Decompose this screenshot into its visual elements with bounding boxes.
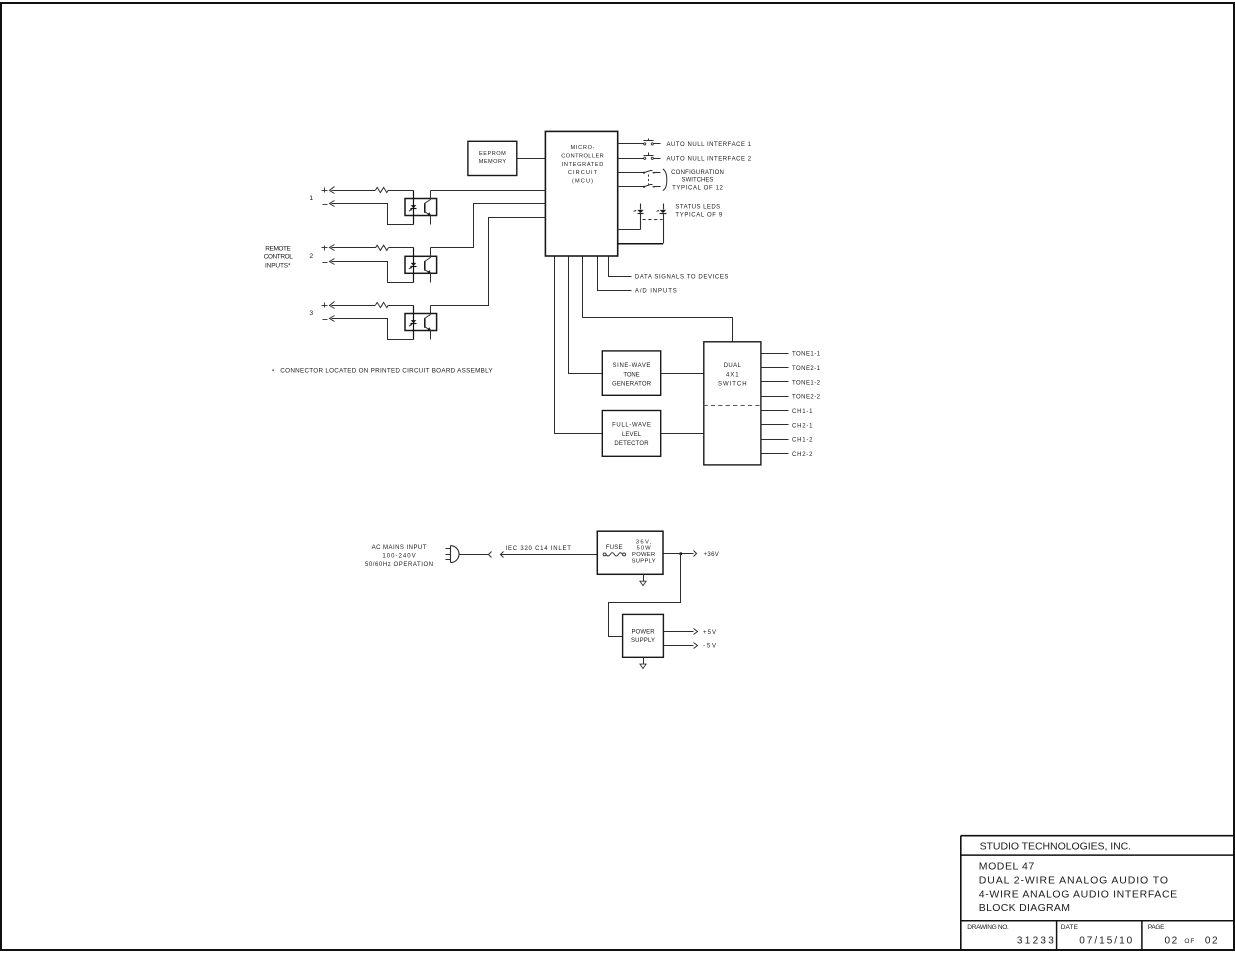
node - input channel 2 <box>323 262 328 264</box>
title model and description <box>979 861 1177 915</box>
svg-text:CH1-1: CH1-1 <box>792 409 813 415</box>
opto-isolator U3 <box>405 306 437 340</box>
svg-text:POWER: POWER <box>631 630 655 636</box>
svg-text:AC MAINS INPUT: AC MAINS INPUT <box>372 545 427 551</box>
fuse F1 symbol <box>603 553 626 556</box>
wire -5V output <box>664 645 694 647</box>
wire status LED D2 to MCU <box>618 243 663 245</box>
wire switch output TONE2-1 <box>761 367 789 369</box>
resistor R3 <box>376 302 389 307</box>
config switch SW1 <box>643 171 654 174</box>
svg-text:DRAWING NO.: DRAWING NO. <box>967 924 1009 931</box>
ground below low voltage power supply <box>640 658 646 669</box>
brace for config switches <box>663 169 667 191</box>
wire MCU to dual 4x1 switch <box>583 257 733 342</box>
wire - input channel 3 <box>332 319 414 340</box>
status LED D2 <box>657 204 667 244</box>
wire + input to resistor channel 1 <box>332 190 376 192</box>
node - input channel 3 <box>323 319 328 321</box>
wire level detector to switch <box>661 433 704 435</box>
wire MCU to config switch 1 <box>618 172 644 174</box>
footnote: connector located on printed circuit board assembly <box>272 368 494 376</box>
wire pushbutton 2 to label <box>654 158 661 160</box>
wire switch output TONE2-2 <box>761 396 789 398</box>
svg-text:CONTROL: CONTROL <box>264 254 294 261</box>
drawing number cell <box>967 924 1054 947</box>
full-wave level detector block <box>602 411 660 457</box>
svg-text:AUTO NULL INTERFACE 2: AUTO NULL INTERFACE 2 <box>667 157 752 163</box>
page cell <box>1148 924 1218 947</box>
dashed divider inside dual 4x1 switch <box>704 405 761 407</box>
svg-text:SUPPLY: SUPPLY <box>631 638 655 644</box>
input arrow - channel 1 <box>330 201 335 207</box>
label REMOTE CONTROL INPUTS* <box>264 245 294 269</box>
svg-text:DUAL: DUAL <box>724 363 742 369</box>
wire +5V output <box>664 631 694 633</box>
svg-text:CH2-1: CH2-1 <box>792 423 813 429</box>
svg-text:POWER: POWER <box>632 552 655 558</box>
svg-text:CONFIGURATION: CONFIGURATION <box>671 170 724 176</box>
svg-text:50W: 50W <box>637 546 652 552</box>
wire opto collector channel 3 <box>430 306 432 315</box>
arrow +5V <box>694 629 698 635</box>
svg-text:LEVEL: LEVEL <box>622 432 642 438</box>
wire pushbutton 1 to label <box>654 143 661 145</box>
wire MCU to sine-wave tone generator <box>569 257 603 374</box>
svg-text:IEC 320 C14 INLET: IEC 320 C14 INLET <box>506 546 572 552</box>
junction node <box>679 552 682 555</box>
pushbutton switch S1 <box>644 139 654 145</box>
wire switch output TONE1-1 <box>761 353 789 355</box>
svg-text:TONE1-1: TONE1-1 <box>792 352 821 358</box>
svg-text:TONE: TONE <box>623 372 639 378</box>
label AC MAINS INPUT 100-240V 50/60Hz OPERATION <box>365 545 433 568</box>
status LED D1 <box>634 204 644 230</box>
AC mains plug symbol <box>446 546 460 563</box>
wire MCU to full-wave level detector <box>555 257 603 434</box>
svg-text:DATE: DATE <box>1061 924 1079 931</box>
input arrow - channel 3 <box>330 316 335 322</box>
wire switch output TONE1-2 <box>761 381 789 383</box>
wire inlet to power supply <box>501 554 598 556</box>
input arrow + channel 1 <box>330 187 335 194</box>
wire config switch 2 out <box>654 186 661 188</box>
wire status LED D1 to MCU <box>618 229 641 231</box>
svg-text:50/60Hz OPERATION: 50/60Hz OPERATION <box>365 562 433 568</box>
input arrow - channel 2 <box>330 259 335 265</box>
ground below 36V power supply <box>640 575 646 586</box>
wire plug to cable arrow <box>460 554 489 556</box>
arrow -5V <box>694 643 698 649</box>
wire resistor to optoisolator channel 2 <box>389 247 414 249</box>
wire switch output CH2-2 <box>761 453 789 455</box>
node - input channel 1 <box>323 204 328 206</box>
wire 36V supply to low-voltage power supply <box>609 554 681 637</box>
svg-text:02: 02 <box>1205 935 1218 946</box>
node + input channel 1 <box>322 188 328 193</box>
wire config switch 1 out <box>654 172 661 174</box>
wire MCU data signals to devices <box>609 257 632 277</box>
arrow +36V <box>694 551 697 557</box>
svg-text:TYPICAL OF 12: TYPICAL OF 12 <box>672 186 723 192</box>
wire +36V output <box>664 553 694 555</box>
input arrow + channel 3 <box>330 302 335 309</box>
wire MCU A/D inputs <box>598 257 632 291</box>
svg-text:TONE2-1: TONE2-1 <box>792 366 821 372</box>
wire EEPROM to MCU <box>517 158 546 160</box>
svg-text:INPUTS*: INPUTS* <box>265 262 291 269</box>
svg-text:MODEL 47: MODEL 47 <box>979 861 1035 873</box>
svg-text:INTEGRATED: INTEGRATED <box>562 162 604 168</box>
wire switch output CH1-1 <box>761 410 789 412</box>
wire MCU to config switch 2 <box>618 186 644 188</box>
svg-text:SINE-WAVE: SINE-WAVE <box>613 363 651 369</box>
svg-text:02: 02 <box>1165 935 1178 946</box>
wire + input to resistor channel 3 <box>332 305 376 307</box>
svg-text:BLOCK DIAGRAM: BLOCK DIAGRAM <box>979 902 1070 914</box>
wire tone generator to switch <box>661 373 704 375</box>
svg-text:PAGE: PAGE <box>1148 924 1165 931</box>
resistor R2 <box>376 245 389 250</box>
date cell <box>1061 924 1133 947</box>
svg-text:3: 3 <box>309 310 313 317</box>
svg-text:MEMORY: MEMORY <box>479 159 507 165</box>
svg-text:1: 1 <box>309 195 313 202</box>
dashed link between status LEDs <box>643 219 663 221</box>
sine-wave tone generator block <box>602 351 660 395</box>
opto-isolator U1 <box>405 191 437 225</box>
label CONFIGURATION SWITCHES TYPICAL OF 12 <box>671 170 724 192</box>
wire opto collector channel 2 <box>430 248 432 258</box>
svg-text:CH2-2: CH2-2 <box>792 452 813 458</box>
svg-text:A/D INPUTS: A/D INPUTS <box>635 289 677 295</box>
svg-text:DETECTOR: DETECTOR <box>614 441 649 447</box>
opto-isolator U2 <box>405 248 437 283</box>
wire - input channel 2 <box>332 262 414 283</box>
pushbutton switch S2 <box>644 153 654 160</box>
title block frame <box>961 836 1234 950</box>
svg-text:STATUS LEDS: STATUS LEDS <box>675 205 720 211</box>
dashed mechanical link between config switches <box>648 175 650 186</box>
config switch SW2 <box>643 185 654 188</box>
svg-text:DUAL 2-WIRE ANALOG AUDIO TO: DUAL 2-WIRE ANALOG AUDIO TO <box>979 874 1168 886</box>
svg-text:CONTROLLER: CONTROLLER <box>561 153 603 159</box>
label STATUS LEDS TYPICAL OF 9 <box>675 205 722 219</box>
svg-text:STUDIO TECHNOLOGIES, INC.: STUDIO TECHNOLOGIES, INC. <box>980 840 1132 852</box>
wire MCU to auto null pushbutton 1 <box>618 143 644 145</box>
svg-text:FULL-WAVE: FULL-WAVE <box>612 423 651 429</box>
svg-text:TONE2-2: TONE2-2 <box>792 395 821 401</box>
svg-text:2: 2 <box>309 253 313 260</box>
svg-text:OF: OF <box>1184 938 1194 945</box>
wire resistor to optoisolator channel 1 <box>389 190 414 192</box>
wire opto collector channel 1 <box>430 191 432 200</box>
svg-text:07/15/10: 07/15/10 <box>1079 935 1132 946</box>
svg-text:DATA SIGNALS TO DEVICES: DATA SIGNALS TO DEVICES <box>635 275 729 281</box>
wire MCU to auto null pushbutton 2 <box>618 158 644 160</box>
resistor R1 <box>376 187 389 192</box>
svg-text:TONE1-2: TONE1-2 <box>792 380 821 386</box>
EEPROM memory block <box>468 141 517 175</box>
svg-text:AUTO NULL INTERFACE 1: AUTO NULL INTERFACE 1 <box>667 142 752 148</box>
svg-text:CH1-2: CH1-2 <box>792 438 813 444</box>
wire opto 2 collector to MCU <box>431 204 546 248</box>
svg-text:GENERATOR: GENERATOR <box>612 382 652 388</box>
svg-text:EEPROM: EEPROM <box>479 151 506 157</box>
svg-text:SWITCHES: SWITCHES <box>682 178 714 184</box>
cable arrow right <box>501 552 504 558</box>
svg-text:100-240V: 100-240V <box>382 554 415 560</box>
svg-text:+36V: +36V <box>704 552 719 558</box>
node + input channel 2 <box>322 246 328 251</box>
input arrow + channel 2 <box>330 245 335 251</box>
microcontroller U1 (MCU) <box>545 131 617 256</box>
wire opto 3 collector to MCU <box>431 218 546 306</box>
wire + input to resistor channel 2 <box>332 247 376 249</box>
cable arrow left <box>489 552 492 558</box>
svg-text:SWITCH: SWITCH <box>718 382 747 388</box>
wire - input channel 1 <box>332 204 414 225</box>
svg-text:-5V: -5V <box>703 644 716 650</box>
wire switch output CH1-2 <box>761 439 789 441</box>
svg-text:MICRO-: MICRO- <box>571 145 595 151</box>
dual 4x1 switch block <box>704 342 761 465</box>
low voltage power supply block <box>623 614 664 657</box>
svg-text:4-WIRE ANALOG AUDIO INTERFACE: 4-WIRE ANALOG AUDIO INTERFACE <box>979 888 1177 900</box>
wire opto 1 collector to MCU <box>431 190 546 192</box>
svg-text:(MCU): (MCU) <box>572 179 593 185</box>
node + input channel 3 <box>322 303 328 308</box>
svg-text:+5V: +5V <box>703 630 716 636</box>
svg-text:CONNECTOR LOCATED ON PRINTED C: CONNECTOR LOCATED ON PRINTED CIRCUIT BOA… <box>280 368 493 375</box>
svg-text:REMOTE: REMOTE <box>265 245 291 252</box>
svg-text:*: * <box>272 368 275 375</box>
svg-text:CIRCUIT: CIRCUIT <box>568 170 598 176</box>
wire switch output CH2-1 <box>761 424 789 426</box>
svg-text:FUSE: FUSE <box>606 545 623 551</box>
svg-text:TYPICAL OF 9: TYPICAL OF 9 <box>675 213 722 219</box>
36V 50W power supply block <box>597 531 663 574</box>
svg-text:SUPPLY: SUPPLY <box>632 558 656 564</box>
wire resistor to optoisolator channel 3 <box>389 305 414 307</box>
svg-text:4X1: 4X1 <box>726 372 739 378</box>
